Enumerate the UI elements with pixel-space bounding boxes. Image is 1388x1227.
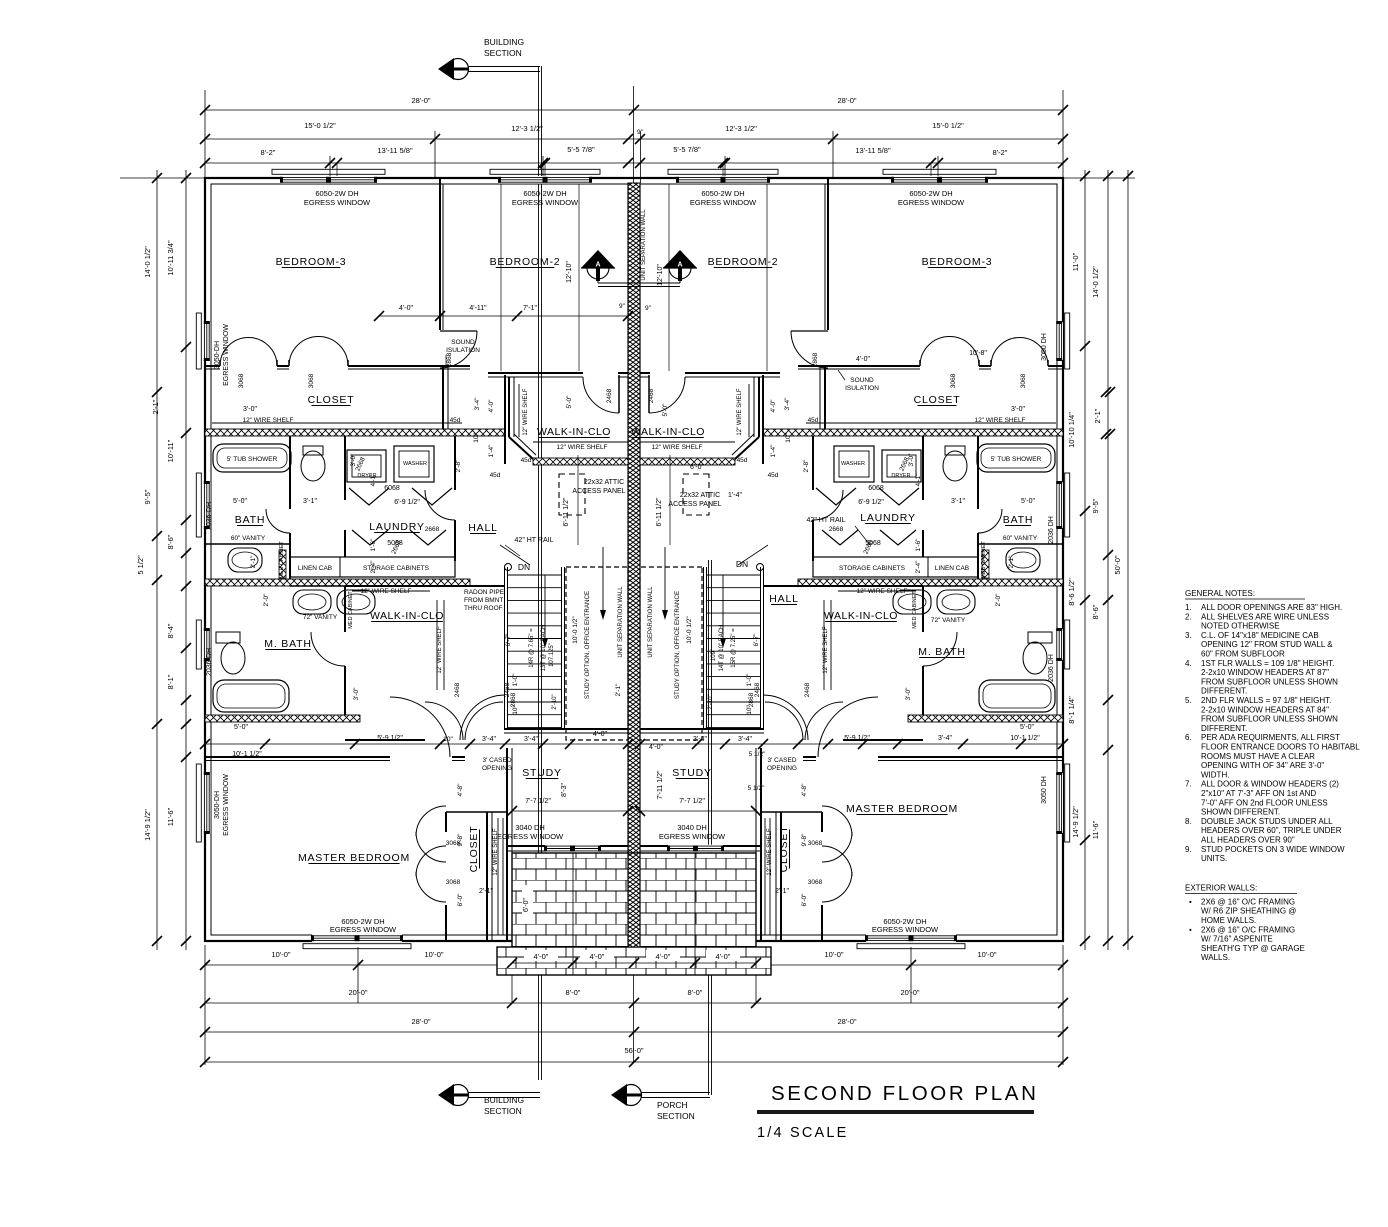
svg-text:6'-9 1/2": 6'-9 1/2" (858, 499, 884, 506)
svg-text:DIFFERENT.: DIFFERENT. (1201, 687, 1247, 696)
svg-text:5' TUB SHOWER: 5' TUB SHOWER (227, 456, 278, 463)
svg-text:10'-11 3/4": 10'-11 3/4" (166, 240, 175, 276)
svg-text:6050-2W DH: 6050-2W DH (909, 189, 952, 198)
svg-text:45d: 45d (450, 417, 461, 424)
svg-text:EGRESS WINDOW: EGRESS WINDOW (690, 198, 757, 207)
svg-text:CLOSET: CLOSET (778, 826, 790, 873)
svg-text:2468: 2468 (648, 388, 655, 403)
svg-text:6'-0": 6'-0" (523, 898, 530, 912)
svg-text:SECOND FLOOR PLAN: SECOND FLOOR PLAN (771, 1082, 1038, 1105)
svg-text:EGRESS WINDOW: EGRESS WINDOW (330, 925, 397, 934)
svg-text:UNIT SEPARATION WALL: UNIT SEPARATION WALL (618, 586, 624, 658)
svg-text:HOME WALLS.: HOME WALLS. (1201, 916, 1256, 925)
svg-text:FROM SUBFLOOR UNLESS SHOWN: FROM SUBFLOOR UNLESS SHOWN (1201, 715, 1338, 724)
svg-text:1'-4": 1'-4" (728, 492, 742, 499)
svg-text:7.: 7. (1185, 780, 1192, 789)
svg-text:12" WIRE SHELF: 12" WIRE SHELF (856, 588, 907, 595)
svg-text:6'-7": 6'-7" (505, 633, 512, 647)
svg-text:2X6 @ 16" O/C FRAMING: 2X6 @ 16" O/C FRAMING (1201, 897, 1295, 906)
svg-text:60" FROM SUBFLOOR: 60" FROM SUBFLOOR (1201, 650, 1285, 659)
svg-text:42" HT RAIL: 42" HT RAIL (807, 517, 846, 524)
svg-text:3050-DH: 3050-DH (214, 341, 221, 369)
svg-text:STUD POCKETS ON 3 WIDE WINDOW: STUD POCKETS ON 3 WIDE WINDOW (1201, 845, 1345, 854)
svg-text:3'-0": 3'-0" (1011, 406, 1025, 413)
svg-text:2X6 @ 16" O/C FRAMING: 2X6 @ 16" O/C FRAMING (1201, 925, 1295, 934)
svg-text:28'-0": 28'-0" (837, 96, 856, 105)
svg-text:5 1/2": 5 1/2" (136, 555, 145, 575)
svg-text:5 1/2": 5 1/2" (748, 785, 765, 792)
svg-text:8'-0": 8'-0" (688, 988, 703, 997)
svg-text:BUILDING: BUILDING (484, 1095, 524, 1105)
svg-text:DRYER: DRYER (891, 473, 910, 479)
svg-text:3'-4": 3'-4" (738, 736, 752, 743)
svg-text:12" WIRE SHELF: 12" WIRE SHELF (493, 828, 499, 875)
svg-text:11'-6": 11'-6" (166, 807, 175, 826)
svg-text:42" HT RAIL: 42" HT RAIL (515, 537, 554, 544)
svg-text:NOTED OTHERWISE: NOTED OTHERWISE (1201, 622, 1280, 631)
svg-text:3050 DH: 3050 DH (1041, 776, 1048, 804)
svg-text:4'-11": 4'-11" (469, 305, 487, 312)
svg-text:9'-5": 9'-5" (143, 489, 152, 504)
svg-text:•: • (1189, 925, 1192, 934)
svg-text:45d: 45d (521, 457, 532, 464)
svg-text:5'-0": 5'-0" (566, 395, 573, 409)
svg-text:ACCESS PANEL: ACCESS PANEL (668, 501, 721, 508)
svg-text:2'-10": 2'-10" (552, 694, 558, 709)
svg-text:CLOSET: CLOSET (308, 394, 355, 406)
svg-text:3' CASED: 3' CASED (482, 757, 511, 764)
svg-text:UNIT SEPARATION WALL: UNIT SEPARATION WALL (648, 586, 654, 658)
svg-text:15R @ 7.25" =: 15R @ 7.25" = (731, 628, 737, 668)
svg-text:A: A (595, 262, 600, 269)
svg-text:8.: 8. (1185, 817, 1192, 826)
svg-text:9'-5": 9'-5" (1091, 498, 1100, 513)
svg-text:FROM SUBFLOOR UNLESS SHOWN: FROM SUBFLOOR UNLESS SHOWN (1201, 677, 1338, 686)
svg-text:2.: 2. (1185, 612, 1192, 621)
svg-text:13T @ 10" EACH: 13T @ 10" EACH (541, 625, 547, 672)
svg-text:3040 DH: 3040 DH (515, 823, 545, 832)
svg-text:WALK-IN-CLO: WALK-IN-CLO (631, 426, 705, 438)
svg-text:10'-1 1/2": 10'-1 1/2" (232, 751, 262, 758)
svg-text:10'-8": 10'-8" (969, 350, 987, 357)
svg-text:ALL HEADERS OVER 90": ALL HEADERS OVER 90" (1201, 836, 1295, 845)
svg-text:6'-7": 6'-7" (753, 633, 760, 647)
svg-text:4'-0": 4'-0" (770, 399, 777, 413)
svg-text:EGRESS WINDOW: EGRESS WINDOW (659, 832, 726, 841)
svg-text:7'-1": 7'-1" (523, 305, 537, 312)
svg-text:BEDROOM-3: BEDROOM-3 (276, 256, 347, 268)
svg-text:3050 DH: 3050 DH (1041, 333, 1048, 361)
svg-text:2036 DH: 2036 DH (1048, 516, 1055, 544)
svg-text:5'-0": 5'-0" (1021, 498, 1035, 505)
svg-text:2'-1": 2'-1" (775, 888, 789, 895)
svg-text:OPENING: OPENING (482, 765, 512, 772)
svg-text:STUDY OPTION, OFFICE ENTRANCE: STUDY OPTION, OFFICE ENTRANCE (584, 591, 591, 699)
svg-text:5 1/2": 5 1/2" (749, 751, 766, 758)
svg-text:1/4 SCALE: 1/4 SCALE (757, 1125, 849, 1141)
svg-text:EGRESS WINDOW: EGRESS WINDOW (872, 925, 939, 934)
svg-text:1ST FLR WALLS = 109 1/8" HEIGH: 1ST FLR WALLS = 109 1/8" HEIGHT. (1201, 659, 1334, 668)
svg-text:2'-8": 2'-8" (803, 459, 810, 473)
svg-text:6'-11 1/2": 6'-11 1/2" (656, 497, 663, 527)
svg-text:2'-1": 2'-1" (1093, 408, 1102, 423)
svg-text:20'-0": 20'-0" (348, 988, 367, 997)
svg-text:12" WIRE SHELF: 12" WIRE SHELF (767, 828, 773, 875)
svg-text:72" VANITY: 72" VANITY (303, 614, 338, 621)
svg-text:DIFFERENT.: DIFFERENT. (1201, 724, 1247, 733)
svg-text:5'-5 7/8": 5'-5 7/8" (673, 145, 701, 154)
svg-text:4'-8": 4'-8" (457, 783, 464, 797)
svg-text:BATH: BATH (235, 514, 265, 526)
svg-text:LINEN CAB: LINEN CAB (935, 565, 969, 572)
svg-text:DOUBLE JACK STUDS UNDER ALL: DOUBLE JACK STUDS UNDER ALL (1201, 817, 1333, 826)
svg-text:SOUND: SOUND (451, 339, 475, 346)
svg-text:22x32 ATTIC: 22x32 ATTIC (680, 492, 720, 499)
svg-text:50'-0": 50'-0" (1113, 555, 1122, 574)
svg-text:6'-0": 6'-0" (690, 464, 704, 471)
svg-text:6'-9 1/2": 6'-9 1/2" (394, 499, 420, 506)
svg-text:2'-1": 2'-1" (1008, 555, 1015, 569)
svg-text:12" WIRE SHELF: 12" WIRE SHELF (651, 444, 702, 451)
svg-text:EGRESS WINDOW: EGRESS WINDOW (497, 832, 564, 841)
svg-text:6.: 6. (1185, 733, 1192, 742)
svg-text:7'-11 1/2": 7'-11 1/2" (657, 770, 664, 800)
svg-text:STUDY: STUDY (522, 767, 562, 779)
svg-text:2"x10" AT 7'-3" AFF ON 1st AND: 2"x10" AT 7'-3" AFF ON 1st AND (1201, 789, 1316, 798)
svg-text:3068: 3068 (808, 840, 823, 847)
svg-text:1'-6": 1'-6" (370, 538, 377, 552)
svg-text:CLOSET: CLOSET (914, 394, 961, 406)
svg-text:WALLS.: WALLS. (1201, 953, 1230, 962)
svg-text:1'-4": 1'-4" (488, 444, 495, 458)
svg-text:6068: 6068 (384, 485, 400, 492)
svg-text:2'-4": 2'-4" (370, 560, 377, 574)
svg-text:1'-4": 1'-4" (770, 444, 777, 458)
svg-text:EGRESS WINDOW: EGRESS WINDOW (512, 198, 579, 207)
svg-text:9": 9" (645, 305, 652, 312)
svg-text:2468: 2468 (454, 682, 461, 697)
svg-text:4'-1": 4'-1" (370, 473, 377, 487)
svg-text:3068: 3068 (950, 373, 957, 388)
svg-text:45d: 45d (737, 457, 748, 464)
svg-text:2036 DH: 2036 DH (1048, 654, 1055, 682)
svg-text:3068: 3068 (446, 879, 461, 886)
svg-text:9'-8": 9'-8" (457, 833, 464, 847)
svg-text:2668: 2668 (425, 526, 440, 533)
svg-text:SHOWN DIFFERENT.: SHOWN DIFFERENT. (1201, 808, 1280, 817)
svg-text:4'-1": 4'-1" (915, 473, 922, 487)
svg-text:WIDTH.: WIDTH. (1201, 770, 1229, 779)
svg-text:10'-0": 10'-0" (271, 950, 290, 959)
svg-text:12" WIRE SHELF: 12" WIRE SHELF (360, 588, 411, 595)
svg-text:5.: 5. (1185, 696, 1192, 705)
svg-text:EGRESS WINDOW: EGRESS WINDOW (304, 198, 371, 207)
svg-text:3'-1": 3'-1" (951, 498, 965, 505)
svg-text:12'-3 1/2": 12'-3 1/2" (725, 124, 757, 133)
svg-text:10": 10" (443, 736, 453, 743)
svg-text:WASHER: WASHER (841, 461, 865, 467)
svg-text:SECTION: SECTION (484, 48, 522, 58)
svg-text:12'-10": 12'-10" (566, 261, 573, 283)
svg-text:THRU ROOF: THRU ROOF (464, 605, 503, 612)
svg-text:M. BATH: M. BATH (264, 638, 311, 650)
svg-text:3'-4": 3'-4" (784, 397, 791, 411)
svg-text:2'-0": 2'-0" (263, 593, 270, 607)
svg-text:5'-0": 5'-0" (662, 403, 669, 417)
svg-text:HEADERS OVER 60", TRIPLE UNDER: HEADERS OVER 60", TRIPLE UNDER (1201, 826, 1342, 835)
svg-text:5'-9 1/2": 5'-9 1/2" (844, 735, 870, 742)
svg-text:3' CASED: 3' CASED (767, 757, 796, 764)
svg-text:3'-1": 3'-1" (303, 498, 317, 505)
svg-text:4'-0": 4'-0" (716, 952, 731, 961)
svg-text:2'-8": 2'-8" (455, 459, 462, 473)
svg-text:EGRESS WINDOW: EGRESS WINDOW (223, 774, 230, 836)
svg-text:8'-1": 8'-1" (166, 674, 175, 689)
svg-text:28'-0": 28'-0" (411, 1017, 430, 1026)
svg-text:22x32 ATTIC: 22x32 ATTIC (584, 479, 624, 486)
svg-text:3.: 3. (1185, 631, 1192, 640)
svg-text:6050-2W DH: 6050-2W DH (523, 189, 566, 198)
svg-text:ALL DOOR OPENINGS ARE 83" HIGH: ALL DOOR OPENINGS ARE 83" HIGH. (1201, 603, 1342, 612)
svg-text:10'-10 1/4": 10'-10 1/4" (1067, 412, 1076, 448)
svg-text:•: • (1189, 897, 1192, 906)
svg-text:109": 109" (711, 649, 717, 661)
svg-text:8'-4": 8'-4" (166, 623, 175, 638)
svg-text:10'-0 1/2": 10'-0 1/2" (686, 616, 693, 644)
svg-text:4'-8": 4'-8" (801, 783, 808, 797)
svg-text:28'-0": 28'-0" (837, 1017, 856, 1026)
svg-text:10": 10" (746, 705, 753, 715)
svg-text:4.: 4. (1185, 659, 1192, 668)
svg-text:7'-0" AFF ON 2nd FLOOR UNLESS: 7'-0" AFF ON 2nd FLOOR UNLESS (1201, 798, 1328, 807)
svg-text:2036-DH: 2036-DH (206, 648, 213, 676)
svg-text:3'-4": 3'-4" (524, 736, 538, 743)
svg-text:LAUNDRY: LAUNDRY (369, 521, 425, 533)
svg-text:2036-DH: 2036-DH (206, 502, 213, 530)
svg-text:8'-6": 8'-6" (1091, 604, 1100, 619)
svg-text:9": 9" (637, 129, 644, 136)
svg-text:14'-0 1/2": 14'-0 1/2" (143, 246, 152, 278)
svg-text:20'-0": 20'-0" (900, 988, 919, 997)
svg-text:15'-0 1/2": 15'-0 1/2" (304, 121, 336, 130)
svg-text:2ND FLR WALLS = 97 1/8" HEIGHT: 2ND FLR WALLS = 97 1/8" HEIGHT. (1201, 696, 1331, 705)
svg-text:10'-0 1/2": 10'-0 1/2" (572, 616, 579, 644)
svg-text:4'-0": 4'-0" (649, 744, 663, 751)
svg-text:8'-0": 8'-0" (566, 988, 581, 997)
svg-text:A: A (677, 262, 682, 269)
svg-text:3068: 3068 (1020, 373, 1027, 388)
svg-text:7'-7 1/2": 7'-7 1/2" (525, 798, 551, 805)
svg-text:GENERAL NOTES:: GENERAL NOTES: (1185, 589, 1255, 598)
svg-text:6'-0": 6'-0" (801, 893, 808, 907)
svg-text:10'-1 1/2": 10'-1 1/2" (1010, 735, 1040, 742)
svg-text:9": 9" (619, 303, 626, 310)
svg-text:SECTION: SECTION (484, 1106, 522, 1116)
svg-text:8'-2": 8'-2" (261, 148, 276, 157)
svg-text:10": 10" (512, 705, 519, 715)
svg-text:45d: 45d (768, 472, 779, 479)
svg-text:ALL SHELVES ARE WIRE UNLESS: ALL SHELVES ARE WIRE UNLESS (1201, 612, 1329, 621)
svg-text:3'-4": 3'-4" (474, 397, 481, 411)
svg-text:12'-10": 12'-10" (657, 264, 664, 286)
svg-text:2'-4": 2'-4" (915, 560, 922, 574)
svg-text:2868: 2868 (510, 692, 517, 707)
svg-text:FLOOR ENTRANCE DOORS TO HABITA: FLOOR ENTRANCE DOORS TO HABITABL (1201, 743, 1360, 752)
svg-text:2468: 2468 (754, 682, 761, 697)
svg-text:3'-4": 3'-4" (482, 736, 496, 743)
svg-text:STUDY: STUDY (672, 767, 712, 779)
svg-text:2-2x10 WINDOW HEADERS AT 87": 2-2x10 WINDOW HEADERS AT 87" (1201, 668, 1329, 677)
svg-text:DN: DN (518, 562, 530, 572)
svg-text:STUDY OPTION, OFFICE ENTRANCE: STUDY OPTION, OFFICE ENTRANCE (674, 591, 681, 699)
svg-text:3'-4": 3'-4" (693, 736, 707, 743)
svg-text:1'-6": 1'-6" (915, 538, 922, 552)
svg-text:4'-0": 4'-0" (856, 356, 870, 363)
svg-text:UNITS.: UNITS. (1201, 854, 1227, 863)
svg-text:2668: 2668 (829, 526, 844, 533)
svg-text:13'-11 5/8": 13'-11 5/8" (377, 146, 413, 155)
svg-text:EGRESS WINDOW: EGRESS WINDOW (898, 198, 965, 207)
svg-text:OPENING: OPENING (767, 765, 797, 772)
svg-text:PORCH: PORCH (657, 1100, 688, 1110)
svg-text:2868: 2868 (446, 352, 453, 367)
svg-text:EXTERIOR WALLS:: EXTERIOR WALLS: (1185, 883, 1257, 892)
svg-text:107.125": 107.125" (549, 643, 555, 667)
svg-text:5'-0": 5'-0" (234, 724, 248, 731)
svg-text:2868: 2868 (748, 692, 755, 707)
svg-text:PER ADA REQUIRMENTS, ALL FIRST: PER ADA REQUIRMENTS, ALL FIRST (1201, 733, 1340, 742)
svg-text:5' TUB SHOWER: 5' TUB SHOWER (991, 456, 1042, 463)
svg-text:11'-0": 11'-0" (1071, 252, 1080, 271)
svg-text:56'-0": 56'-0" (624, 1046, 643, 1055)
svg-text:WALK-IN-CLO: WALK-IN-CLO (370, 610, 444, 622)
svg-text:3'-0": 3'-0" (243, 406, 257, 413)
svg-text:15'-0 1/2": 15'-0 1/2" (932, 121, 964, 130)
svg-text:14'-9 1/2": 14'-9 1/2" (1071, 806, 1080, 838)
svg-text:HALL: HALL (769, 593, 798, 605)
svg-text:WALK-IN-CLO: WALK-IN-CLO (537, 426, 611, 438)
svg-text:FROM BMNT: FROM BMNT (464, 597, 503, 604)
svg-text:HALL: HALL (468, 522, 497, 534)
svg-text:SECTION: SECTION (657, 1111, 695, 1121)
svg-text:8'-6 1/2": 8'-6 1/2" (1067, 578, 1076, 606)
svg-text:C.L. OF 14"x18" MEDICINE CAB: C.L. OF 14"x18" MEDICINE CAB (1201, 631, 1319, 640)
svg-text:3068: 3068 (308, 373, 315, 388)
svg-text:12" WIRE SHELF: 12" WIRE SHELF (974, 417, 1025, 424)
svg-text:EGRESS WINDOW: EGRESS WINDOW (223, 324, 230, 386)
svg-text:9.: 9. (1185, 845, 1192, 854)
svg-text:3068: 3068 (238, 373, 245, 388)
svg-text:2-2x10 WINDOW HEADERS AT 84": 2-2x10 WINDOW HEADERS AT 84" (1201, 705, 1329, 714)
svg-text:10": 10" (473, 433, 480, 443)
svg-text:60" VANITY: 60" VANITY (231, 535, 266, 542)
svg-text:MASTER BEDROOM: MASTER BEDROOM (846, 803, 958, 815)
svg-text:2868: 2868 (812, 352, 819, 367)
svg-text:WASHER: WASHER (403, 461, 427, 467)
svg-text:1'-0": 1'-0" (512, 673, 519, 687)
svg-text:3068: 3068 (808, 879, 823, 886)
svg-text:2'-10": 2'-10" (708, 694, 714, 709)
svg-text:4'-0": 4'-0" (399, 305, 413, 312)
svg-text:MED CABINET: MED CABINET (912, 591, 918, 629)
svg-text:45d: 45d (490, 472, 501, 479)
svg-text:14R @ 7.65" =: 14R @ 7.65" = (529, 628, 535, 668)
svg-text:LINEN CAB: LINEN CAB (298, 565, 332, 572)
svg-text:5'-9 1/2": 5'-9 1/2" (377, 735, 403, 742)
svg-text:BEDROOM-3: BEDROOM-3 (922, 256, 993, 268)
svg-text:3'-4": 3'-4" (938, 735, 952, 742)
svg-text:6068: 6068 (868, 485, 884, 492)
svg-text:W/ 7/16" ASPENITE: W/ 7/16" ASPENITE (1201, 935, 1273, 944)
svg-text:LAUNDRY: LAUNDRY (860, 512, 916, 524)
svg-text:OPENING WITH OF 34" ARE 3'-0": OPENING WITH OF 34" ARE 3'-0" (1201, 761, 1324, 770)
svg-text:BEDROOM-2: BEDROOM-2 (708, 256, 779, 268)
svg-text:6050-2W DH: 6050-2W DH (701, 189, 744, 198)
svg-text:10": 10" (785, 433, 792, 443)
svg-text:4'-0": 4'-0" (656, 952, 671, 961)
svg-text:4'-0": 4'-0" (534, 952, 549, 961)
svg-text:12" WIRE SHELF: 12" WIRE SHELF (556, 444, 607, 451)
svg-text:2468: 2468 (804, 682, 811, 697)
svg-text:STORAGE CABINETS: STORAGE CABINETS (839, 565, 906, 572)
svg-text:M. BATH: M. BATH (918, 646, 965, 658)
svg-text:6'-0": 6'-0" (457, 893, 464, 907)
svg-text:MED CABINET: MED CABINET (348, 591, 354, 629)
svg-text:2'-1": 2'-1" (479, 888, 493, 895)
svg-text:1.: 1. (1185, 603, 1192, 612)
svg-text:10'-11": 10'-11" (166, 439, 175, 462)
svg-text:5'-0": 5'-0" (233, 498, 247, 505)
svg-text:3'-0": 3'-0" (908, 453, 915, 467)
svg-text:10'-0": 10'-0" (824, 950, 843, 959)
svg-text:2'-1": 2'-1" (615, 683, 622, 697)
svg-text:14'-9 1/2": 14'-9 1/2" (143, 809, 152, 841)
svg-text:8'-2": 8'-2" (993, 148, 1008, 157)
svg-text:13'-11 5/8": 13'-11 5/8" (855, 146, 891, 155)
svg-text:2'-1": 2'-1" (151, 399, 160, 414)
svg-text:CLOSET: CLOSET (468, 826, 480, 873)
svg-text:12" WIRE SHELF: 12" WIRE SHELF (242, 417, 293, 424)
svg-text:4'-0": 4'-0" (590, 952, 605, 961)
svg-text:DN: DN (736, 559, 748, 569)
svg-text:1'-0": 1'-0" (746, 673, 753, 687)
svg-text:9'-8": 9'-8" (801, 833, 808, 847)
svg-text:8'-3": 8'-3" (561, 783, 568, 797)
svg-text:UNIT SEPARATION WALL: UNIT SEPARATION WALL (641, 209, 647, 281)
svg-text:OPENING 12" FROM STUD WALL &: OPENING 12" FROM STUD WALL & (1201, 640, 1333, 649)
svg-text:BUILDING: BUILDING (484, 37, 524, 47)
svg-text:ISULATION: ISULATION (845, 385, 879, 392)
svg-text:7'-7 1/2": 7'-7 1/2" (679, 798, 705, 805)
svg-text:12" WIRE SHELF: 12" WIRE SHELF (523, 388, 529, 435)
svg-text:10'-0": 10'-0" (424, 950, 443, 959)
svg-text:11'-6": 11'-6" (1091, 820, 1100, 839)
svg-text:8'-1 1/4": 8'-1 1/4" (1067, 696, 1076, 724)
svg-text:3040 DH: 3040 DH (677, 823, 707, 832)
svg-text:SOUND: SOUND (850, 377, 874, 384)
svg-text:28'-0": 28'-0" (411, 96, 430, 105)
svg-text:12" WIRE SHELF: 12" WIRE SHELF (437, 626, 443, 673)
svg-text:10'-0": 10'-0" (977, 950, 996, 959)
svg-text:MASTER BEDROOM: MASTER BEDROOM (298, 852, 410, 864)
svg-text:RADON PIPE: RADON PIPE (464, 589, 505, 596)
svg-text:W/ R6 ZIP SHEATHING @: W/ R6 ZIP SHEATHING @ (1201, 907, 1296, 916)
svg-text:5'-5 7/8": 5'-5 7/8" (567, 145, 595, 154)
svg-text:BATH: BATH (1003, 514, 1033, 526)
svg-text:6050-2W DH: 6050-2W DH (315, 189, 358, 198)
svg-text:12" WIRE SHELF: 12" WIRE SHELF (823, 626, 829, 673)
svg-text:MED CABINET: MED CABINET (981, 541, 987, 579)
